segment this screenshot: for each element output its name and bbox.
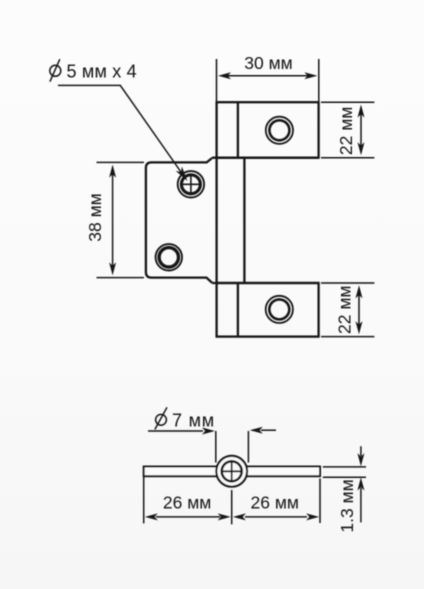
svg-text:26 мм: 26 мм — [251, 492, 299, 512]
svg-text:7 мм: 7 мм — [172, 410, 215, 430]
dimension text 26 мм (left) — [163, 492, 211, 512]
dimension ф 7 мм (barrel diameter) — [148, 427, 276, 463]
dimension text 30 мм — [244, 53, 292, 73]
screw hole with phillips cross (left plate, upper) — [178, 171, 204, 197]
svg-text:5 мм x 4: 5 мм x 4 — [67, 62, 137, 82]
dimension 22 мм (top wing height) — [321, 102, 374, 158]
dimension 26 мм (right half) — [233, 479, 320, 524]
screw hole (left plate, lower) — [156, 244, 182, 270]
label ф 7 мм — [155, 407, 215, 430]
dimension 22 мм (bottom wing height) — [321, 283, 374, 337]
side view barrel with pin cross — [216, 456, 247, 487]
dimension 1.3 мм (leaf thickness) — [323, 446, 366, 522]
dimension 26 мм (left half) — [144, 476, 232, 524]
dimension text 26 мм (right) — [251, 492, 299, 512]
svg-text:22 мм: 22 мм — [336, 107, 356, 155]
dimension text 22 мм (bottom, rotated) — [335, 286, 355, 334]
svg-text:38 мм: 38 мм — [85, 193, 105, 241]
top wing (right plate upper flap) — [217, 102, 319, 158]
hole (bottom wing) — [266, 296, 293, 323]
svg-text:26 мм: 26 мм — [163, 492, 211, 512]
hole (top wing) — [266, 117, 293, 144]
knuckle column middle section — [212, 158, 319, 283]
label ф 5 мм x 4 with leader arrow — [50, 59, 188, 181]
top wing inner knuckle line — [237, 102, 239, 158]
bottom wing inner knuckle line — [237, 283, 239, 337]
dimension text 22 мм (top, rotated) — [336, 107, 356, 155]
svg-text:30 мм: 30 мм — [244, 53, 292, 73]
left plate outline — [146, 158, 212, 283]
dimension 38 мм (left plate height) — [97, 162, 145, 277]
dimension text 38 мм (rotated) — [85, 193, 105, 241]
side view leaf bar — [144, 467, 320, 477]
dimension 30 мм (top width) — [217, 59, 319, 101]
svg-text:22 мм: 22 мм — [335, 286, 355, 334]
bottom wing (right plate lower flap) — [217, 283, 319, 337]
dimension text 1.3 мм (rotated) — [337, 479, 357, 532]
svg-text:1.3 мм: 1.3 мм — [337, 479, 357, 532]
